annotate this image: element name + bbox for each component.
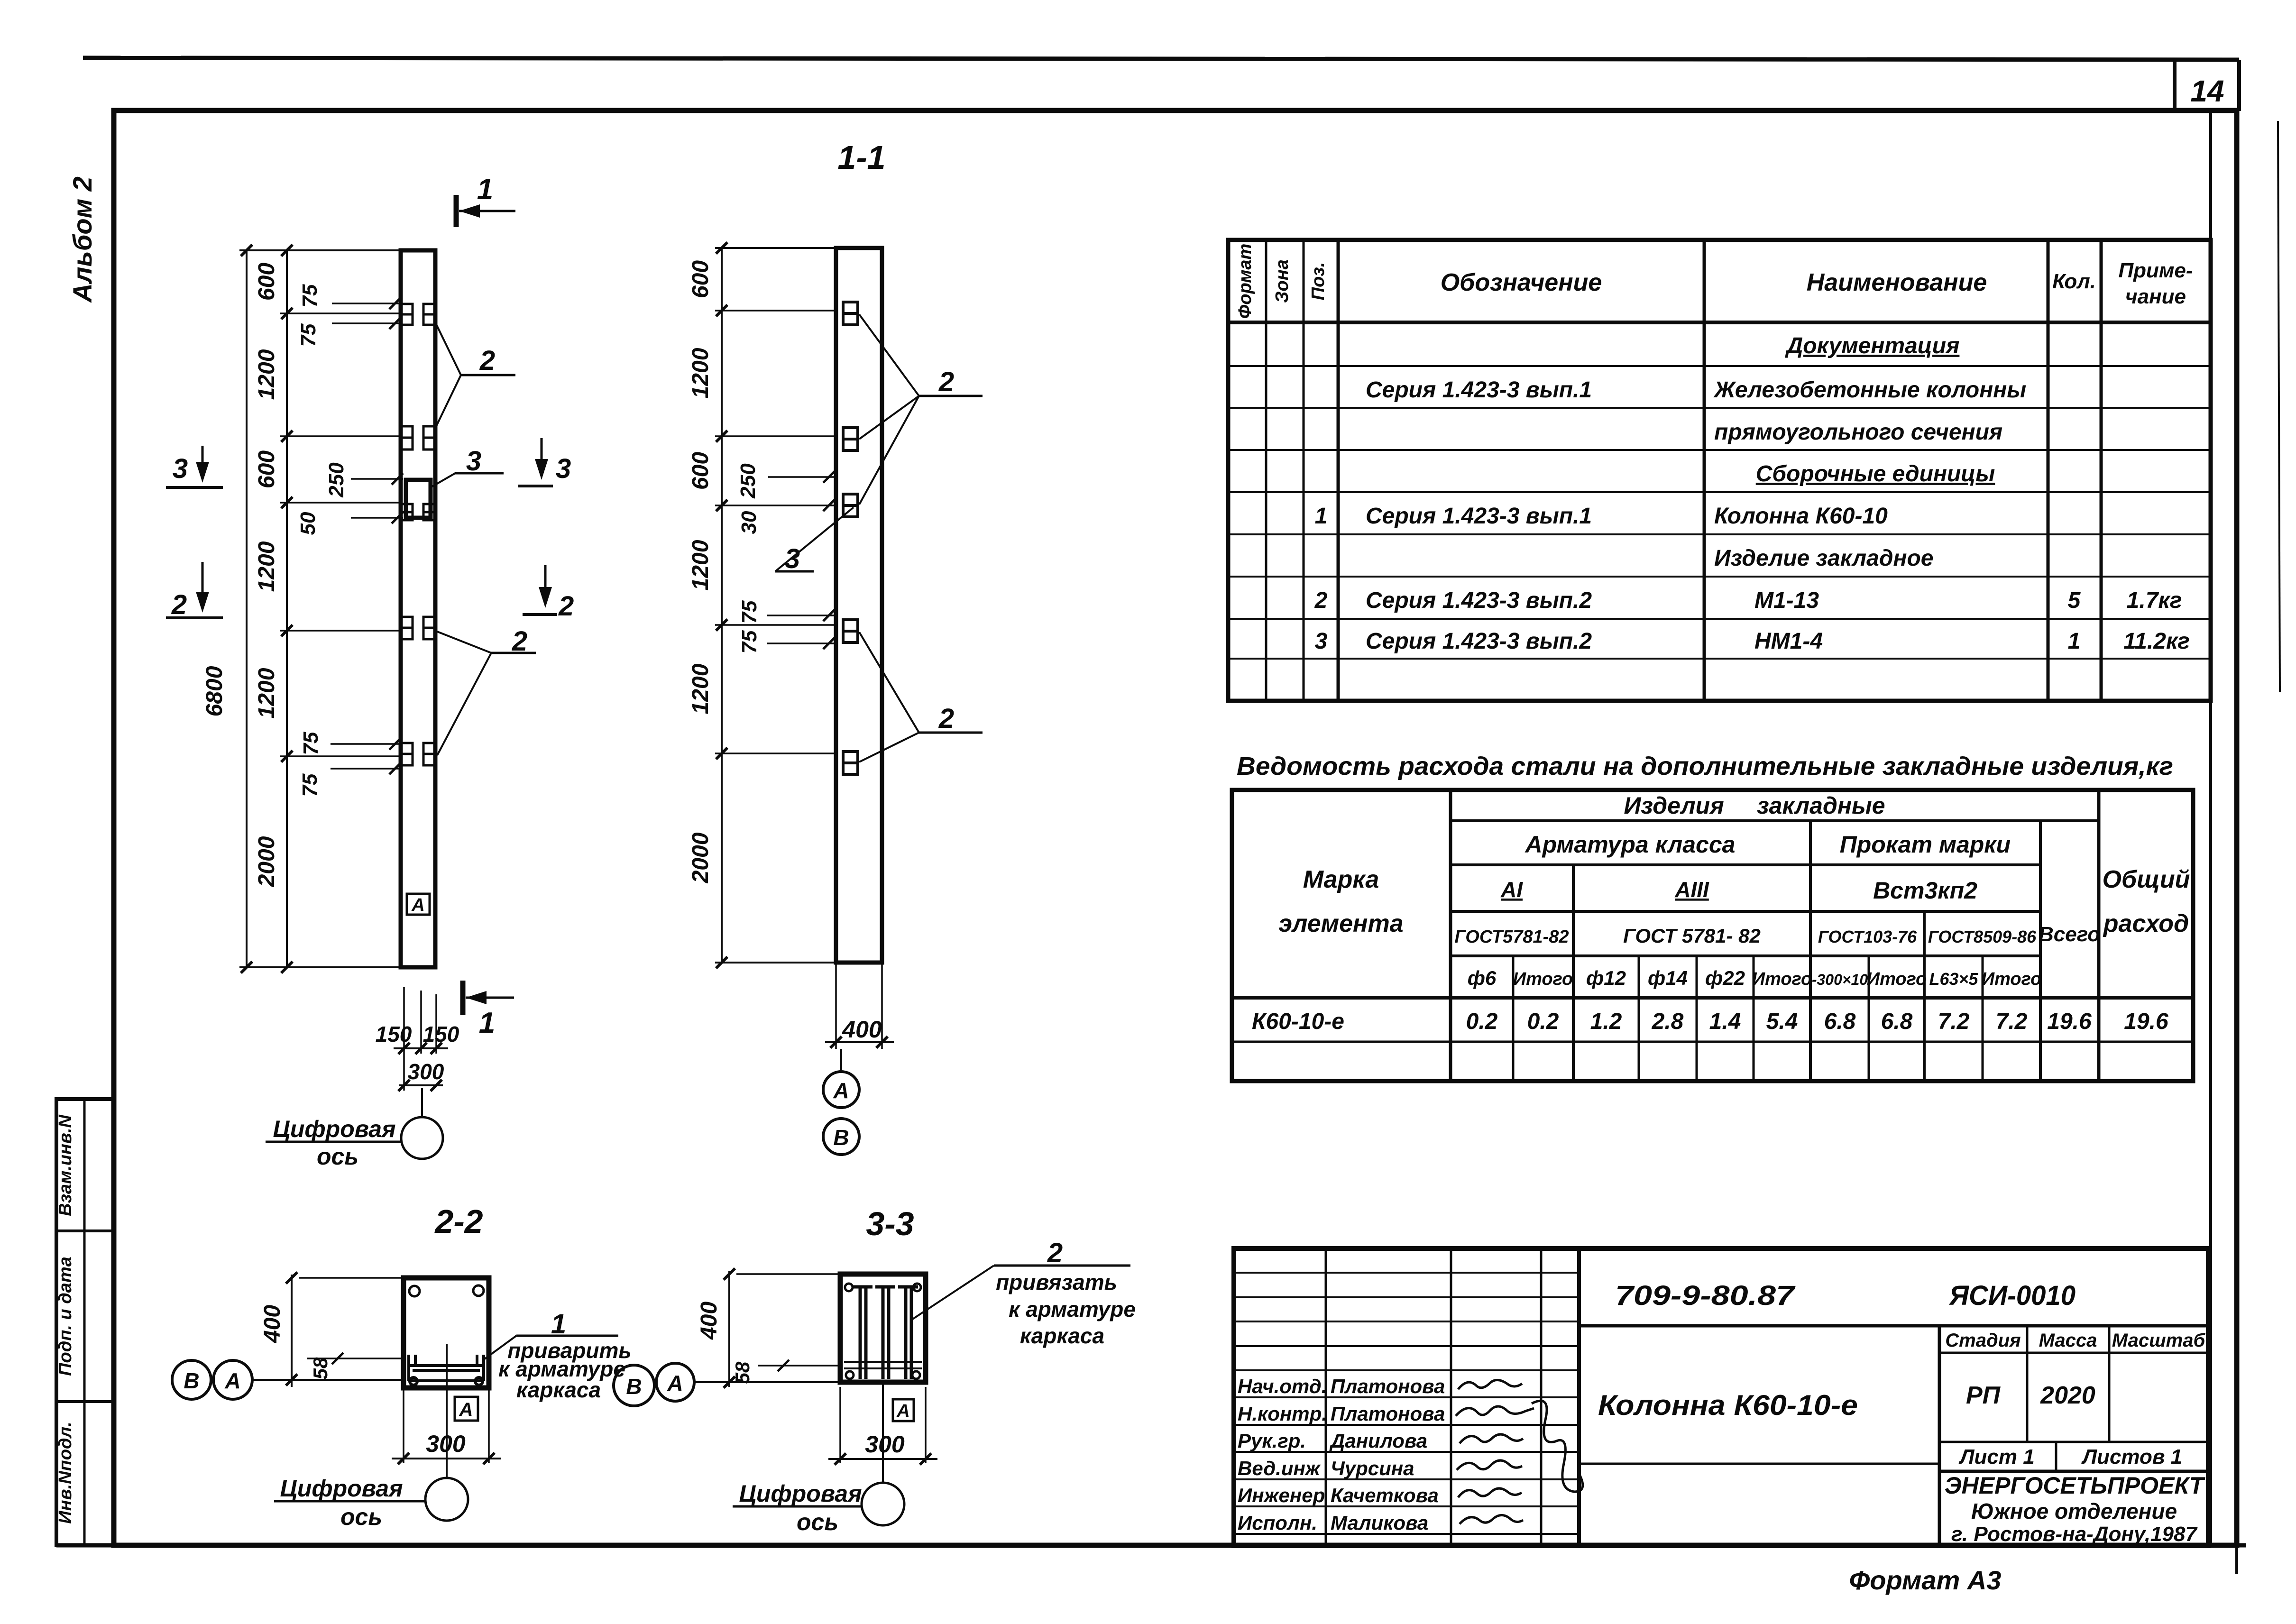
dim 58 <box>307 1358 404 1359</box>
svg-text:Подп. и дата: Подп. и дата <box>55 1257 75 1376</box>
svg-text:Лист 1: Лист 1 <box>1958 1445 2034 1468</box>
svg-text:400: 400 <box>260 1305 285 1343</box>
svg-text:Арматура класса: Арматура класса <box>1525 831 1736 858</box>
dim 58 <box>758 1365 840 1367</box>
svg-text:3-3: 3-3 <box>866 1205 914 1242</box>
svg-text:расход: расход <box>2103 910 2189 937</box>
svg-text:2: 2 <box>938 367 954 397</box>
svg-text:1: 1 <box>2068 629 2081 654</box>
svg-text:Данилова: Данилова <box>1329 1430 1427 1452</box>
svg-text:300: 300 <box>865 1431 905 1458</box>
embedded plates pair at 1800 <box>401 426 435 450</box>
svg-text:6800: 6800 <box>202 666 227 716</box>
column body section <box>836 248 882 963</box>
svg-text:1200: 1200 <box>688 348 713 398</box>
dim 300 bottom <box>403 1390 404 1463</box>
svg-text:2: 2 <box>1314 588 1328 613</box>
svg-text:Серия 1.423-3 вып.1: Серия 1.423-3 вып.1 <box>1366 504 1592 529</box>
svg-text:600: 600 <box>254 263 279 301</box>
svg-text:ГОСТ103-76: ГОСТ103-76 <box>1818 927 1917 946</box>
svg-text:1-1: 1-1 <box>837 139 885 176</box>
svg-text:1: 1 <box>479 1007 495 1039</box>
svg-text:АIII: АIII <box>1674 877 1709 902</box>
svg-text:г. Ростов-на-Дону,1987: г. Ростов-на-Дону,1987 <box>1951 1523 2198 1546</box>
svg-text:Маликова: Маликова <box>1331 1512 1428 1534</box>
plate body <box>840 1274 926 1382</box>
section mark 2 right <box>544 565 547 603</box>
svg-text:Альбом 2: Альбом 2 <box>67 176 97 303</box>
svg-text:Вст3кп2: Вст3кп2 <box>1873 877 1977 904</box>
section mark 1 top <box>454 195 459 227</box>
svg-text:Сборочные единицы: Сборочные единицы <box>1756 461 1995 486</box>
svg-text:2: 2 <box>938 703 954 734</box>
embedded plates pair at 3600 <box>401 617 435 639</box>
svg-text:600: 600 <box>688 260 713 298</box>
svg-text:Н.контр.: Н.контр. <box>1238 1403 1327 1425</box>
svg-text:Серия 1.423-3 вып.2: Серия 1.423-3 вып.2 <box>1366 588 1592 613</box>
left rows <box>1234 1272 1579 1274</box>
svg-text:В: В <box>626 1374 642 1399</box>
svg-text:1200: 1200 <box>254 349 279 400</box>
svg-text:Масштаб: Масштаб <box>2112 1330 2206 1351</box>
svg-text:3: 3 <box>556 453 571 484</box>
axis line <box>252 1379 404 1381</box>
svg-text:2000: 2000 <box>688 832 713 883</box>
dim 250/50 <box>351 478 403 480</box>
channel NM1-4 on column <box>406 480 431 518</box>
dim 300 bottom <box>839 1387 841 1463</box>
svg-text:250: 250 <box>736 463 760 499</box>
svg-text:каркаса: каркаса <box>516 1377 601 1402</box>
axis circles A B <box>840 1049 842 1072</box>
centerline to axis circle <box>882 1385 884 1483</box>
svg-text:Цифровая: Цифровая <box>280 1475 403 1502</box>
svg-text:2000: 2000 <box>254 836 279 887</box>
svg-text:75: 75 <box>299 732 322 755</box>
dim 75/75 top <box>332 303 400 304</box>
svg-text:А: А <box>667 1371 683 1395</box>
svg-text:Зона: Зона <box>1272 259 1292 303</box>
svg-text:Инв.Nподл.: Инв.Nподл. <box>55 1422 75 1523</box>
dim 150+150 <box>394 1047 448 1049</box>
svg-text:прямоугольного сечения: прямоугольного сечения <box>1714 420 2002 445</box>
svg-text:Листов 1: Листов 1 <box>2081 1445 2182 1468</box>
svg-text:0.2: 0.2 <box>1527 1009 1559 1034</box>
svg-text:6.8: 6.8 <box>1881 1009 1913 1034</box>
axis line <box>694 1381 840 1383</box>
svg-text:300: 300 <box>408 1059 444 1084</box>
svg-text:7.2: 7.2 <box>1996 1009 2028 1034</box>
svg-text:1: 1 <box>1315 504 1328 529</box>
svg-text:Серия 1.423-3 вып.2: Серия 1.423-3 вып.2 <box>1366 629 1592 654</box>
svg-text:Качеткова: Качеткова <box>1331 1484 1439 1506</box>
svg-text:Стадия: Стадия <box>1945 1330 2020 1351</box>
svg-text:Итого: Итого <box>1752 969 1812 989</box>
steel table frame <box>1232 790 2193 1081</box>
svg-text:К60-10-е: К60-10-е <box>1252 1009 1344 1034</box>
svg-text:0.2: 0.2 <box>1466 1009 1498 1034</box>
centerline to axis circle <box>446 1344 448 1478</box>
dim 75/75 at 3600 <box>767 615 835 616</box>
svg-text:6.8: 6.8 <box>1824 1009 1856 1034</box>
svg-text:ф12: ф12 <box>1586 967 1626 989</box>
svg-text:Итого: Итого <box>1982 969 2041 989</box>
dim chain 6800 <box>246 250 248 967</box>
embedded plates pair at 4800 <box>401 743 435 765</box>
right part <box>1939 1352 2208 1354</box>
svg-text:-300×10: -300×10 <box>1812 971 1868 988</box>
svg-text:Марка: Марка <box>1303 866 1379 893</box>
signatures <box>1458 1380 1522 1389</box>
A axis marker <box>893 1399 914 1421</box>
svg-text:ф14: ф14 <box>1648 967 1688 989</box>
dim 400 bottom <box>835 963 837 1049</box>
right page edge artifact <box>2278 121 2280 692</box>
sheet top line <box>83 58 2239 60</box>
svg-text:2: 2 <box>171 589 187 620</box>
svg-text:Чурсина: Чурсина <box>1331 1457 1414 1479</box>
svg-text:каркаса: каркаса <box>1020 1323 1104 1348</box>
svg-text:В: В <box>833 1125 849 1150</box>
svg-text:Итого: Итого <box>1867 969 1927 989</box>
svg-text:709-9-80.87: 709-9-80.87 <box>1615 1280 1796 1311</box>
svg-text:Приме-: Приме- <box>2118 259 2193 282</box>
svg-text:Рук.гр.: Рук.гр. <box>1238 1430 1306 1452</box>
svg-text:Итого: Итого <box>1513 969 1573 989</box>
svg-text:ось: ось <box>317 1143 358 1170</box>
svg-text:А: А <box>411 895 424 915</box>
svg-text:19.6: 19.6 <box>2124 1009 2168 1034</box>
svg-text:5.4: 5.4 <box>1766 1009 1798 1034</box>
svg-text:1200: 1200 <box>688 663 713 714</box>
svg-text:1.2: 1.2 <box>1590 1009 1622 1034</box>
svg-text:Инженер: Инженер <box>1238 1484 1325 1506</box>
svg-text:Железобетонные колонны: Железобетонные колонны <box>1713 377 2026 403</box>
svg-text:75: 75 <box>298 773 321 797</box>
svg-text:1200: 1200 <box>688 540 713 590</box>
svg-text:ф22: ф22 <box>1705 967 1745 989</box>
svg-text:Колонна К60-10: Колонна К60-10 <box>1714 504 1888 529</box>
svg-text:Общий: Общий <box>2103 866 2190 893</box>
title block frame <box>1234 1248 2208 1546</box>
dim chain <box>721 248 723 963</box>
svg-text:2: 2 <box>479 345 495 376</box>
plates on face <box>843 302 858 774</box>
svg-text:Изделия закладные: Изделия закладные <box>1624 792 1885 819</box>
svg-text:1.7кг: 1.7кг <box>2127 588 2182 613</box>
svg-text:Вед.инж: Вед.инж <box>1238 1457 1321 1479</box>
svg-text:600: 600 <box>688 452 713 490</box>
svg-text:1200: 1200 <box>254 668 279 718</box>
A axis marker <box>455 1397 478 1421</box>
embedded plates M1-13 pair at 600 <box>401 304 435 325</box>
svg-text:Документация: Документация <box>1785 333 1960 358</box>
svg-text:Колонна К60-10-е: Колонна К60-10-е <box>1598 1389 1858 1421</box>
A axis marker on column <box>407 894 430 915</box>
dim 250/30 <box>768 476 835 478</box>
svg-text:Масса: Масса <box>2039 1330 2097 1351</box>
dim 400 left <box>291 1275 293 1387</box>
svg-text:Платонова: Платонова <box>1331 1403 1445 1425</box>
svg-text:Изделие закладное: Изделие закладное <box>1714 546 1934 571</box>
svg-text:М1-13: М1-13 <box>1754 588 1819 613</box>
axis circles V A <box>172 1360 211 1399</box>
svg-text:чание: чание <box>2125 285 2186 308</box>
svg-text:Формат А3: Формат А3 <box>1849 1565 2002 1595</box>
svg-text:АI: АI <box>1500 877 1523 902</box>
svg-text:Серия 1.423-3 вып.1: Серия 1.423-3 вып.1 <box>1366 377 1592 403</box>
svg-text:Прокат марки: Прокат марки <box>1840 831 2011 858</box>
svg-text:75: 75 <box>738 600 761 624</box>
svg-text:Формат: Формат <box>1235 244 1255 319</box>
dim chain segments <box>286 250 288 967</box>
svg-text:250: 250 <box>325 462 348 498</box>
svg-text:14: 14 <box>2190 74 2224 108</box>
svg-text:2-2: 2-2 <box>434 1203 483 1240</box>
svg-text:Нач.отд.: Нач.отд. <box>1238 1375 1327 1397</box>
svg-text:ГОСТ5781-82: ГОСТ5781-82 <box>1454 927 1569 947</box>
left margin stamp column <box>56 1099 114 1545</box>
axis circles V A <box>614 1365 654 1406</box>
svg-text:Взам.инв.N: Взам.инв.N <box>55 1114 75 1216</box>
svg-text:L63×5: L63×5 <box>1929 969 1978 989</box>
bottom line extension left of frame <box>56 1543 114 1548</box>
svg-text:Всего: Всего <box>2039 923 2100 946</box>
svg-text:А: А <box>833 1078 849 1103</box>
svg-text:50: 50 <box>296 512 320 535</box>
svg-text:НМ1-4: НМ1-4 <box>1754 629 1823 654</box>
svg-text:элемента: элемента <box>1278 910 1403 937</box>
svg-text:150: 150 <box>423 1022 459 1046</box>
svg-text:3: 3 <box>1315 629 1328 654</box>
svg-text:600: 600 <box>254 450 279 488</box>
svg-text:ф6: ф6 <box>1468 967 1497 989</box>
svg-text:400: 400 <box>842 1016 882 1043</box>
page number box 14 <box>2173 59 2177 111</box>
svg-text:Исполн.: Исполн. <box>1238 1512 1317 1534</box>
axis circle <box>401 1117 443 1159</box>
svg-text:1200: 1200 <box>254 541 279 592</box>
svg-text:Поз.: Поз. <box>1308 262 1328 301</box>
svg-text:3: 3 <box>173 453 188 484</box>
section mark 1 bottom <box>460 981 466 1015</box>
svg-text:30: 30 <box>737 511 761 534</box>
svg-text:Наименование: Наименование <box>1807 269 1987 296</box>
svg-text:2020: 2020 <box>2040 1382 2095 1409</box>
anchor bars <box>852 1286 918 1379</box>
svg-text:Кол.: Кол. <box>2052 270 2096 293</box>
svg-text:150: 150 <box>376 1022 412 1046</box>
dim 400 left <box>728 1271 730 1387</box>
svg-text:ЭНЕРГОСЕТЬПРОЕКТ: ЭНЕРГОСЕТЬПРОЕКТ <box>1945 1472 2206 1499</box>
svg-text:ГОСТ8509-86: ГОСТ8509-86 <box>1928 927 2037 946</box>
right frame tail below bottom <box>2235 1545 2238 1574</box>
svg-text:2: 2 <box>1047 1238 1063 1268</box>
channel inside <box>409 1355 484 1385</box>
svg-text:2.8: 2.8 <box>1652 1009 1684 1034</box>
extension lines <box>403 987 405 1091</box>
svg-text:75: 75 <box>298 284 321 307</box>
svg-text:3: 3 <box>785 543 800 574</box>
column body K60-10 <box>401 250 435 967</box>
svg-text:1.4: 1.4 <box>1709 1009 1741 1034</box>
plate body <box>404 1278 489 1388</box>
svg-text:Обозначение: Обозначение <box>1441 269 1602 296</box>
svg-text:1: 1 <box>477 173 493 206</box>
svg-text:Цифровая: Цифровая <box>739 1480 862 1507</box>
svg-text:ось: ось <box>340 1504 382 1530</box>
anchor holes <box>409 1286 420 1296</box>
svg-text:Цифровая: Цифровая <box>273 1116 395 1142</box>
svg-text:В: В <box>184 1368 199 1393</box>
bottom line extension right of frame <box>2237 1543 2246 1548</box>
svg-text:400: 400 <box>697 1302 722 1340</box>
svg-text:58: 58 <box>731 1361 753 1384</box>
svg-text:РП: РП <box>1966 1382 2001 1409</box>
axis line to circle <box>421 1088 423 1117</box>
svg-text:Южное отделение: Южное отделение <box>1971 1499 2177 1523</box>
svg-text:А: А <box>896 1401 909 1421</box>
dim 75/75 at 4800 <box>331 743 400 745</box>
svg-text:А: А <box>459 1399 473 1420</box>
svg-text:к арматуре: к арматуре <box>1009 1297 1136 1321</box>
svg-text:3: 3 <box>466 446 481 477</box>
svg-text:привязать: привязать <box>996 1270 1117 1294</box>
svg-text:ЯСИ-0010: ЯСИ-0010 <box>1948 1280 2076 1311</box>
svg-text:5: 5 <box>2068 588 2081 613</box>
svg-text:Платонова: Платонова <box>1331 1375 1445 1397</box>
inner right vertical line <box>2209 110 2212 1545</box>
svg-text:7.2: 7.2 <box>1938 1009 1970 1034</box>
svg-text:58: 58 <box>309 1357 331 1379</box>
center cells <box>1579 1324 2208 1328</box>
section mark 3 right <box>541 438 543 475</box>
svg-text:11.2кг: 11.2кг <box>2123 629 2190 654</box>
dim 300 <box>399 1084 443 1086</box>
svg-text:ГОСТ 5781- 82: ГОСТ 5781- 82 <box>1623 925 1761 947</box>
svg-text:75: 75 <box>297 323 320 347</box>
svg-text:19.6: 19.6 <box>2047 1009 2092 1034</box>
svg-text:ось: ось <box>797 1509 838 1535</box>
svg-text:А: А <box>224 1368 240 1393</box>
svg-text:75: 75 <box>738 630 761 653</box>
embedded plates pair at 2400 <box>401 504 435 520</box>
svg-text:Ведомость расхода стали на доп: Ведомость расхода стали на дополнительны… <box>1237 752 2173 780</box>
svg-text:2: 2 <box>558 591 574 622</box>
spec table frame <box>1228 240 2211 701</box>
